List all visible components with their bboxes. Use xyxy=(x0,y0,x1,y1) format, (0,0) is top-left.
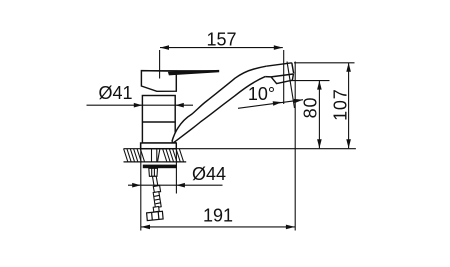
extension line tip right xyxy=(294,62,296,231)
corrugated hose xyxy=(153,192,161,208)
spout head top edge xyxy=(266,63,292,66)
base flange xyxy=(141,143,177,149)
svg-text:10°: 10° xyxy=(248,84,275,104)
svg-text:Ø44: Ø44 xyxy=(192,164,226,184)
extension line spout top xyxy=(294,62,355,64)
dimension 10 degrees xyxy=(238,99,303,108)
handle cap xyxy=(141,71,176,92)
faucet body xyxy=(142,96,175,144)
extension line aerator bottom xyxy=(290,80,330,82)
svg-text:80: 80 xyxy=(300,97,320,119)
aerator top line xyxy=(271,74,293,77)
hex end fitting xyxy=(147,211,164,220)
svg-text:191: 191 xyxy=(203,205,233,225)
extension line axis xyxy=(159,50,161,79)
cap top edge xyxy=(141,70,218,72)
locknut xyxy=(143,165,177,169)
aerator chin xyxy=(265,76,271,78)
spout underside curve xyxy=(174,77,266,143)
svg-text:107: 107 xyxy=(330,88,350,120)
extension line spout tip xyxy=(283,50,285,104)
dimension 191 xyxy=(141,225,295,230)
spout xyxy=(172,63,294,143)
dimension O41 xyxy=(87,103,194,108)
extension line flange right xyxy=(175,149,177,194)
countertop hatch right xyxy=(163,149,184,162)
spout root turn xyxy=(172,141,174,142)
extension line flange left xyxy=(140,143,142,231)
lever blade xyxy=(168,70,218,75)
supply tube xyxy=(153,176,158,186)
dimension 157 xyxy=(160,45,283,50)
svg-text:Ø41: Ø41 xyxy=(98,83,132,103)
countertop bottom line xyxy=(124,161,187,163)
shank through counter xyxy=(152,149,160,162)
body ring line xyxy=(142,121,175,123)
dimension 107 xyxy=(346,63,351,149)
hose ferrule xyxy=(153,185,160,192)
spout top curve xyxy=(172,66,266,141)
svg-text:157: 157 xyxy=(206,30,236,50)
countertop surface line xyxy=(124,148,356,150)
tilted axis line xyxy=(287,62,295,109)
dimension 80 xyxy=(317,81,322,149)
threaded shank below nut xyxy=(149,168,158,176)
hose collar xyxy=(153,207,159,213)
aerator block xyxy=(271,74,293,84)
spout head right edge xyxy=(292,63,294,74)
countertop hatch left xyxy=(124,149,145,162)
dimension O44 xyxy=(128,183,223,188)
